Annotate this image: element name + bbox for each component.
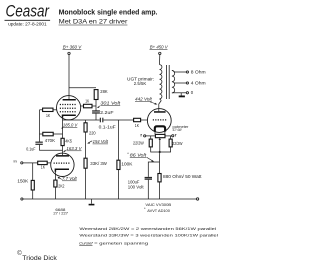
svg-text:AVVT AD100: AVVT AD100	[147, 209, 170, 213]
resistor 150K	[17, 179, 34, 190]
svg-text:Ceasar: Ceasar	[6, 3, 51, 21]
svg-text:100K: 100K	[121, 161, 132, 166]
svg-text:185.0 V: 185.0 V	[63, 122, 79, 127]
tube V2 anode plate	[56, 155, 69, 157]
svg-text:Triode Dick: Triode Dick	[22, 255, 58, 262]
svg-text:Monoblock single ended amp.: Monoblock single ended amp.	[59, 7, 158, 16]
ground secondary	[179, 93, 185, 98]
wire grid node vertical	[39, 110, 41, 142]
wire ground rail	[23, 198, 196, 200]
resistor 33K/3W	[84, 158, 107, 168]
tube V2 27 envelope	[51, 153, 74, 176]
wire 22/2W right bottom to node	[160, 147, 171, 152]
wire V1 cathode down to 4K5	[62, 118, 64, 139]
wire input node to 150K	[32, 163, 34, 181]
resistor 22/2W left	[133, 139, 152, 147]
terminal f left	[144, 135, 146, 137]
wire 0.1uF to V2 anode node	[40, 145, 63, 150]
node B+ 450 V label	[150, 45, 169, 50]
capacitor 0.1uF	[26, 142, 43, 152]
wire 880 to ground rail	[159, 182, 161, 199]
tube V3 VV300B envelope	[147, 109, 171, 133]
terminal input	[21, 162, 23, 164]
node 154 Volt label	[87, 139, 109, 144]
wire B+ branch to 28K	[69, 87, 96, 89]
wire 28K to node 301V	[95, 100, 97, 111]
svg-text:27 / 227: 27 / 227	[53, 212, 68, 216]
resistor 1K grid stopper V3	[134, 118, 141, 128]
wire 220 to 33K	[85, 132, 87, 158]
wire 470K right to cathode node	[53, 133, 62, 135]
terminal 0	[186, 90, 194, 95]
svg-text:4 Ohm: 4 Ohm	[191, 81, 206, 86]
tube V3 grid	[153, 119, 166, 121]
wire f left to potmeter	[146, 135, 156, 137]
svg-text:in: in	[14, 158, 17, 163]
ground symbol center	[89, 199, 95, 205]
tube V1 D3A envelope	[57, 96, 81, 120]
wire output rail left	[63, 119, 100, 121]
wire V2 cathode to 2K2	[54, 172, 56, 180]
svg-text:442 Volt: 442 Volt	[135, 97, 153, 102]
svg-text:0.1uF: 0.1uF	[26, 146, 36, 151]
tube V1 grid g1	[60, 104, 77, 106]
wire secondary tap 8 Ohm	[172, 71, 186, 73]
wire secondary tap 4 Ohm	[174, 82, 186, 84]
wire 470K left	[40, 133, 43, 135]
capacitor 0.1-1uF	[99, 118, 117, 130]
wire potmeter to f right	[165, 135, 172, 137]
wire g2 to 1K	[81, 105, 84, 107]
svg-text:22/2W: 22/2W	[133, 140, 144, 145]
wire primary bottom lead	[160, 99, 162, 101]
svg-text:= gemeten spanning: = gemeten spanning	[94, 241, 148, 245]
transformer primary winding	[160, 65, 162, 99]
terminal f right	[172, 135, 174, 137]
wire 33K to ground rail	[85, 168, 87, 199]
tube V2 grid	[54, 162, 71, 164]
terminal B+ 450	[159, 52, 161, 54]
wire secondary tap 0	[172, 92, 186, 94]
node 86 Volt label	[127, 151, 154, 162]
wire 150K to ground rail	[32, 190, 34, 199]
svg-text:2K2: 2K2	[58, 183, 65, 188]
resistor 470K	[43, 132, 55, 143]
svg-text:0.1-1uF: 0.1-1uF	[99, 124, 117, 129]
svg-text:2.5/5K: 2.5/5K	[134, 81, 147, 86]
wire B+450 to primary	[159, 55, 161, 65]
note line 3 Cursief	[79, 241, 148, 245]
wire output rail right	[103, 119, 133, 121]
svg-text:2.2uF: 2.2uF	[100, 110, 114, 115]
transformer secondary winding	[172, 71, 175, 93]
svg-text:150K: 150K	[17, 179, 28, 184]
wire grid node to 1K	[40, 109, 43, 111]
wire 1K to V3 grid	[141, 119, 148, 121]
title Ceasar	[5, 3, 51, 21]
wire 100uF to ground rail	[147, 180, 149, 199]
wire 22/2W right stem	[170, 136, 172, 139]
resistor 2K2	[54, 180, 65, 188]
terminal B+ 360	[68, 52, 70, 54]
svg-text:301 Volt: 301 Volt	[100, 101, 121, 106]
wire V3 anode to primary	[159, 101, 161, 112]
tube V1 grid g3	[60, 111, 77, 113]
resistor 100K	[117, 160, 133, 169]
wire 2.2uF to rail	[95, 114, 97, 120]
node 163.3 V label	[63, 146, 83, 152]
wire cathode node down	[159, 152, 161, 174]
resistor 22/2W right	[169, 139, 183, 147]
terminal input ground	[21, 198, 23, 200]
wire input to 1K	[23, 162, 38, 164]
tube V3 filament	[155, 126, 165, 131]
capacitor 2.2uF	[92, 110, 114, 115]
terminal ground right	[196, 198, 198, 200]
svg-text:880 Ohm/ 50 Watt: 880 Ohm/ 50 Watt	[163, 174, 202, 179]
svg-text:8 Ohm: 8 Ohm	[191, 70, 206, 75]
node 7.7 Volt label	[58, 176, 78, 181]
svg-text:86 Volt: 86 Volt	[130, 152, 147, 157]
node B+ 360 V label	[63, 44, 83, 49]
transformer core	[165, 65, 167, 99]
svg-text:220: 220	[89, 130, 96, 135]
wire V2 grid lead	[47, 162, 51, 164]
wire branch to 100uF	[148, 162, 159, 177]
terminal 4 Ohm	[186, 81, 206, 86]
node 301 Volt label	[97, 101, 121, 108]
wire 2K2 to ground rail	[54, 187, 56, 199]
wire 22/2W left bottom to node	[151, 147, 160, 152]
svg-text:Weerstand 33K/3W = 3 weers: Weerstand 33K/3W = 3 weerstanden 100K/1W…	[79, 234, 218, 238]
svg-text:7.7 Volt: 7.7 Volt	[62, 176, 78, 181]
resistor 220	[84, 123, 96, 136]
capacitor 100uF 100Volt	[128, 177, 152, 190]
node 185.0 V label	[61, 122, 78, 128]
wire 1K to V1 grid	[53, 109, 57, 111]
wire B+360 to V1 anode	[68, 55, 70, 100]
svg-text:B+ 360 V: B+ 360 V	[63, 44, 82, 49]
tube V1 anode plate	[63, 99, 76, 101]
label tube types 6688 27/227	[53, 208, 68, 216]
svg-text:1K: 1K	[135, 123, 139, 128]
wire 22/2W left stem	[150, 136, 152, 139]
tube V2 cathode	[55, 169, 69, 172]
svg-text:33K/ 3W: 33K/ 3W	[90, 161, 107, 166]
copyright Triode Dick	[17, 250, 58, 262]
svg-text:4K5: 4K5	[65, 138, 72, 143]
resistor 28K	[94, 89, 108, 99]
resistor 1K screen stopper	[84, 98, 93, 107]
label AVVT AD100	[144, 206, 170, 213]
svg-text:Weerstand 28K/2W = 2 weers: Weerstand 28K/2W = 2 weerstanden 56K/1W …	[79, 227, 216, 231]
svg-text:28K: 28K	[100, 89, 108, 94]
resistor 1K input	[38, 161, 48, 170]
svg-text:Cursief: Cursief	[79, 241, 93, 245]
svg-text:163.3 V: 163.3 V	[66, 146, 82, 151]
svg-text:154 Volt: 154 Volt	[93, 139, 109, 144]
svg-text:1K: 1K	[85, 98, 89, 103]
terminal 8 Ohm	[186, 70, 206, 75]
svg-text:update: 27-8-2001: update: 27-8-2001	[8, 21, 47, 26]
svg-text:1K: 1K	[41, 165, 45, 170]
svg-text:100 Volt: 100 Volt	[128, 185, 145, 190]
svg-text:1K: 1K	[46, 113, 50, 118]
tube V1 cathode	[63, 115, 76, 117]
svg-text:470K: 470K	[45, 138, 55, 143]
wire rail to 220	[85, 120, 87, 123]
svg-text:22/2W: 22/2W	[172, 141, 182, 146]
resistor 1K grid stopper V1	[43, 108, 53, 118]
tube V3 anode plate	[154, 111, 166, 113]
heading Met D3A en 27 driver	[59, 19, 129, 26]
wire 1K to node 301V	[92, 105, 96, 107]
resistor 4K5	[61, 138, 73, 145]
wire 4K5 to V2 anode	[62, 146, 64, 156]
potmeter 47/4W body	[155, 134, 165, 137]
svg-text:Met D3A en 27 driver: Met D3A en 27 driver	[59, 19, 129, 26]
wire filament legs	[154, 132, 156, 135]
potmeter wiper	[159, 138, 161, 152]
wire rail to 100K	[117, 120, 119, 160]
svg-text:B+ 450 V: B+ 450 V	[150, 45, 169, 50]
wire 100K to ground rail	[117, 170, 119, 200]
tube V1 grid g2	[60, 107, 77, 109]
junction cathode node	[159, 151, 161, 153]
resistor 880 Ohm 50 Watt	[158, 174, 202, 182]
svg-text:VAIC VV300B: VAIC VV300B	[145, 203, 171, 207]
node 442 Volt label	[135, 97, 157, 105]
